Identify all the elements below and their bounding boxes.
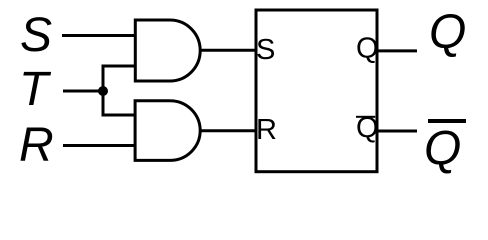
svg-text:Q: Q bbox=[429, 6, 466, 59]
junction dot on T bbox=[98, 86, 108, 96]
wire S to gate U1 bbox=[62, 34, 135, 37]
svg-text:S: S bbox=[20, 9, 52, 62]
wire latch Qbar output bbox=[377, 130, 417, 133]
output Qbar overbar bbox=[428, 119, 466, 123]
wire latch Q output bbox=[377, 49, 417, 52]
svg-text:S: S bbox=[256, 34, 275, 66]
SR latch box U3 bbox=[256, 10, 377, 172]
wire gate U2 output to latch R bbox=[200, 129, 256, 132]
wire T to node bbox=[63, 90, 103, 93]
wire R to gate U2 bbox=[63, 144, 135, 147]
svg-text:T: T bbox=[19, 63, 52, 116]
svg-text:Q: Q bbox=[356, 32, 379, 64]
AND gate U1 bbox=[135, 20, 200, 81]
wire node down to gate U2 upper input bbox=[103, 91, 135, 115]
svg-text:R: R bbox=[256, 114, 277, 146]
AND gate U2 bbox=[135, 101, 200, 161]
wire gate U1 output to latch S bbox=[200, 49, 256, 52]
wire node up to gate U1 lower input bbox=[103, 66, 135, 91]
pin Qbar overbar bbox=[356, 116, 375, 118]
svg-text:Q: Q bbox=[424, 123, 461, 176]
svg-text:R: R bbox=[19, 119, 54, 172]
